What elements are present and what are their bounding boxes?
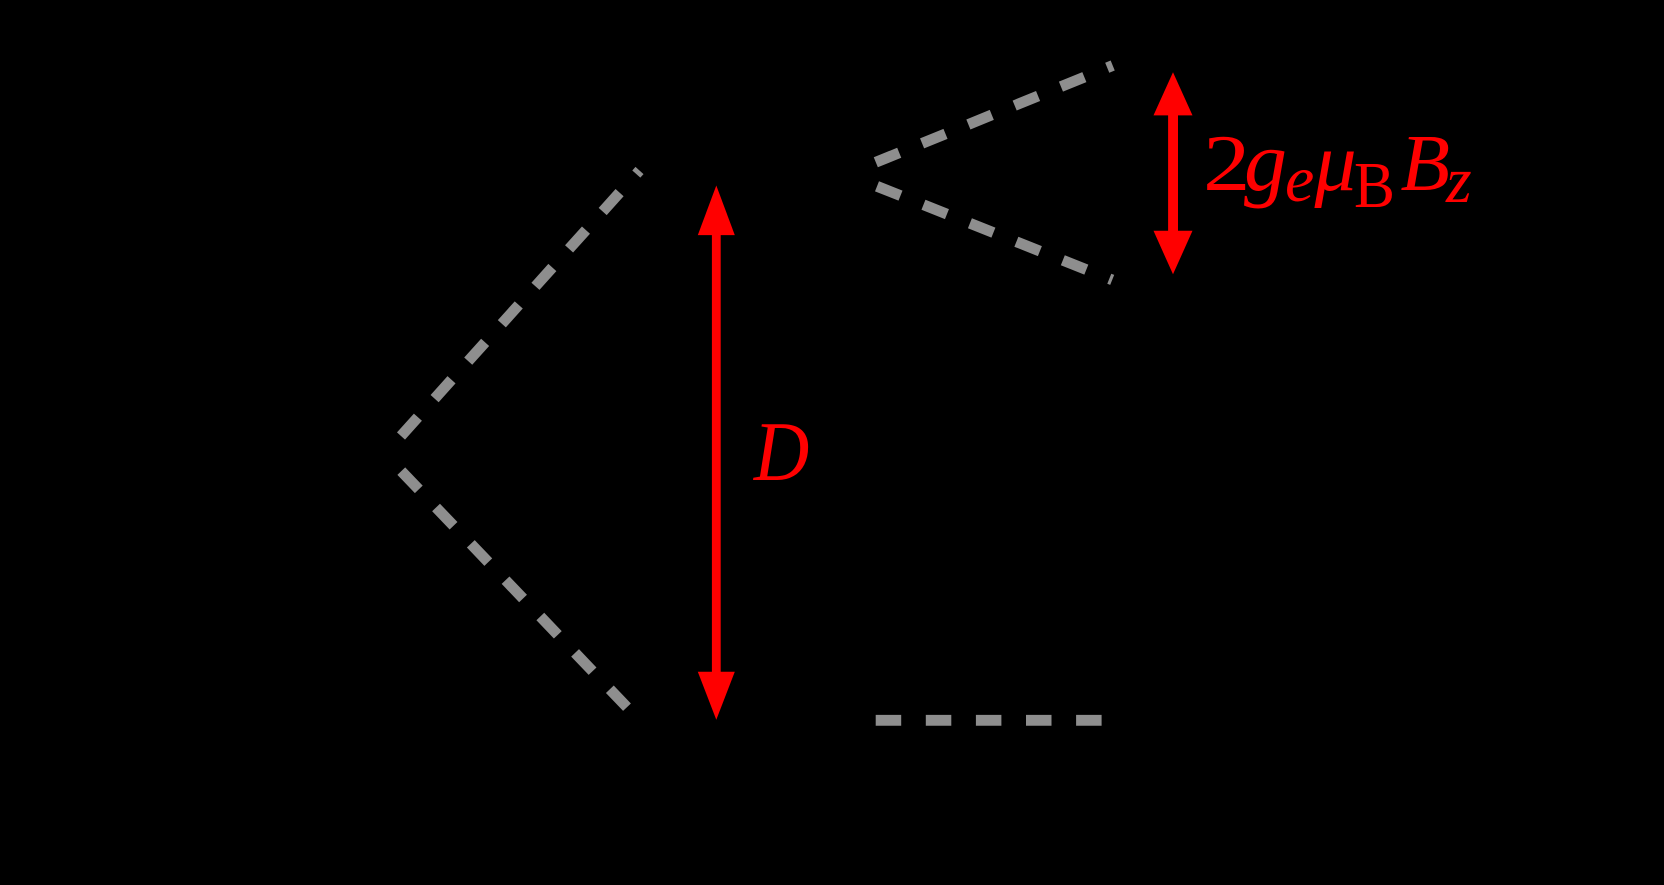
dashed level connector: left lower (ground to ms=0) [401, 471, 627, 707]
svg-text:z: z [1445, 144, 1472, 217]
svg-text:μ: μ [1314, 116, 1357, 209]
svg-text:e: e [1285, 143, 1314, 216]
svg-text:B: B [1354, 148, 1395, 222]
dashed level connector: left upper (ground to ms=+-1) [401, 171, 640, 437]
label 2ge uB Bz [1203, 113, 1472, 221]
dashed level connector: horizontal (ms=0 unshifted) [876, 715, 1102, 726]
svg-text:B: B [1401, 118, 1450, 208]
dashed level connector: right upper (ms=+1 Zeeman) [876, 66, 1113, 163]
dashed level connector: right lower (ms=-1 Zeeman) [877, 186, 1112, 280]
red double arrow D (zero-field splitting) [698, 186, 735, 720]
svg-text:D: D [753, 404, 809, 499]
red double arrow 2geuBBz (Zeeman splitting) [1154, 72, 1193, 274]
svg-text:g: g [1244, 113, 1287, 209]
